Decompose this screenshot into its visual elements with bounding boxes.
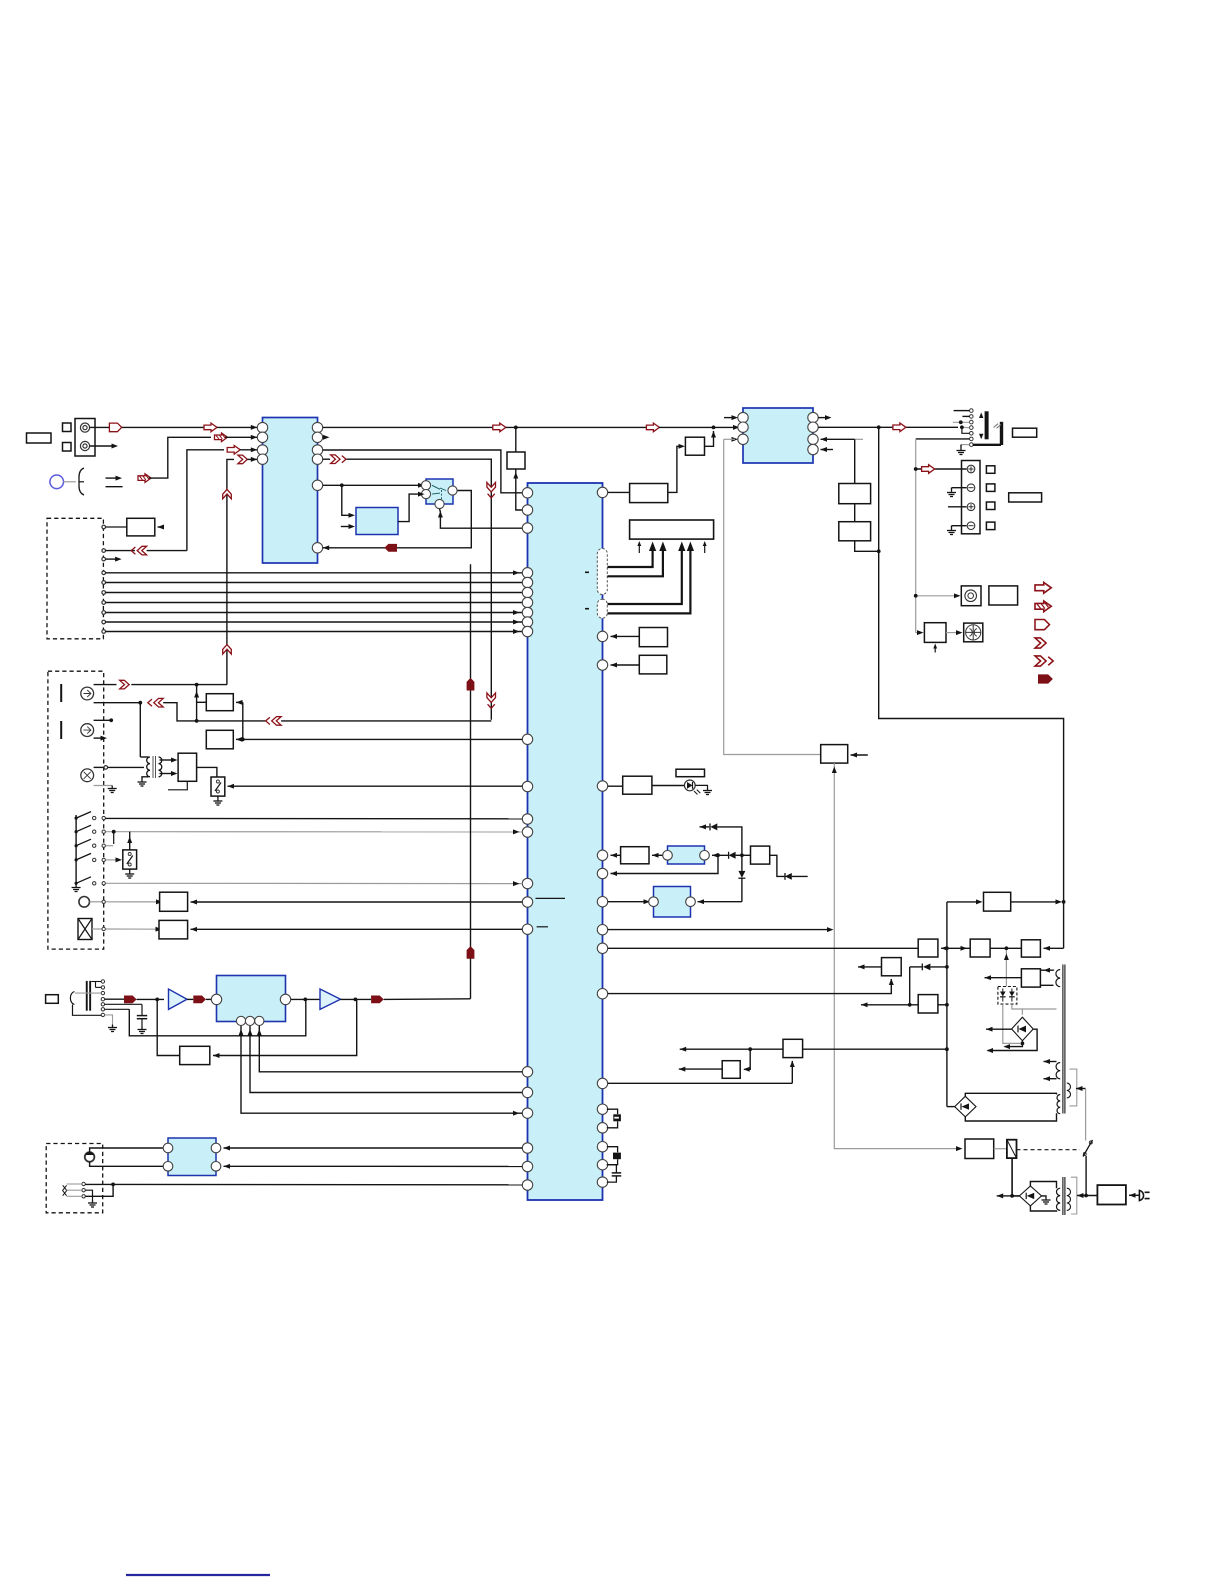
arrow U1.R4 out (331, 455, 346, 464)
tick inside U2 at 927 (537, 926, 548, 928)
stub after Dd4 (792, 875, 808, 877)
riser x140 to T1 (139, 703, 141, 757)
box B6 (630, 484, 668, 503)
wire B20 right (236, 738, 243, 740)
preamp block U8 (217, 976, 286, 1022)
C2 stub bottom (94, 737, 104, 739)
bridge rectifier BR3 (1019, 1186, 1041, 1206)
U2 left pin y622 (522, 617, 532, 627)
jack wire c4 (962, 426, 970, 428)
box B10 (839, 522, 871, 541)
T1 sec bottom lead (160, 773, 175, 775)
solid arrow audio b (193, 996, 206, 1004)
arrow stub B34 left (858, 964, 865, 969)
wire x157 to B44 (157, 999, 180, 1055)
U2 right pin y1182.1 (597, 1177, 607, 1187)
switch box B23 (123, 850, 137, 869)
grey wire down to B30 (724, 439, 821, 754)
wire U8.B2 to U2 1092 (250, 1026, 522, 1093)
T3 primary winding (1057, 1188, 1061, 1210)
U6 pin R (700, 851, 710, 861)
down chevron on x491 riser upper (487, 483, 496, 498)
small box B43 (46, 995, 59, 1004)
left chevrons y720 (266, 717, 281, 726)
wire U9 to U2 1148 (224, 1147, 523, 1149)
buffer amp T1 (169, 989, 188, 1009)
U9 pin L2 (163, 1162, 173, 1172)
label box (27, 433, 52, 443)
terminal square y522.1 (986, 522, 995, 530)
D1 contact bus3 (102, 591, 106, 595)
ground G5 (108, 786, 117, 793)
arrow into U2 636 (611, 634, 618, 639)
box B37 (783, 1039, 803, 1057)
U2 right pin y873.5 (597, 868, 607, 878)
opto zener pair (1000, 992, 1006, 997)
chevron arrow C1 (120, 680, 129, 689)
box B24 (160, 892, 188, 911)
thick bus arrows into B8 (608, 547, 653, 568)
terminal block B13 (962, 461, 981, 534)
U3 right pin y427.2 (808, 422, 818, 432)
wire sw1 to U2 819 (106, 817, 523, 819)
terminal square y465.8 (986, 466, 995, 474)
aux out lead (1076, 1088, 1086, 1090)
box B5 (507, 452, 525, 469)
sec1 top lead (1044, 1061, 1057, 1063)
wire B26 to LED (652, 785, 685, 787)
wire U6.R to Dd2 (712, 854, 728, 856)
U2 right pin y855.3 (597, 850, 607, 860)
box B32 (970, 939, 990, 957)
box B39 (984, 892, 1011, 911)
wire U8.B3 to U2 1071 (259, 1026, 522, 1072)
U2 left pin y832 (522, 827, 532, 837)
arrow into B25 right (191, 927, 198, 932)
xtal box (78, 919, 92, 940)
mic hatched arrow (138, 474, 151, 483)
solid arrow audio c (371, 996, 384, 1004)
aux lead2 (67, 1189, 82, 1191)
fan box B18 (964, 623, 983, 642)
B22 gnd lead (217, 796, 219, 798)
U2 right pin y1109.2 (597, 1104, 607, 1114)
ground G6 (138, 779, 147, 786)
capacitor C1 (141, 1004, 143, 1015)
legend arrow 4 (1035, 638, 1046, 648)
jack wire c3 (953, 421, 970, 423)
tick inside U2 at 608 (585, 608, 589, 610)
AC plug (1139, 1190, 1143, 1200)
wire switch to AC line (1085, 1156, 1087, 1195)
dashed mech link (1017, 1149, 1080, 1151)
D1 contact 550 (102, 549, 106, 553)
wire U2 1083 (608, 1082, 793, 1084)
junction x915 y469 (914, 467, 918, 471)
arrow on speaker line (893, 423, 906, 432)
diode Dd5 (923, 964, 931, 971)
wire BR1 bottom (1005, 1041, 1023, 1047)
wire Dd2 to B29 (736, 854, 751, 856)
wire D1 to B4 (106, 526, 127, 528)
junction (75, 830, 78, 833)
connector J1 pin A outer (80, 423, 89, 432)
wire U1.R1 to U3 segment b (506, 426, 647, 428)
box B45 (639, 628, 667, 647)
terminal circle 3 (967, 503, 975, 511)
mic bracket (79, 468, 84, 495)
block U9 (168, 1138, 216, 1176)
wire U1.R5 to U4.L1 (323, 484, 422, 486)
arrow U9.R1 (224, 1146, 231, 1151)
wire into U8 (206, 998, 211, 1000)
ground G13 (1042, 1197, 1051, 1204)
box B46 (639, 655, 667, 674)
box B35 (918, 995, 938, 1013)
wire to B38 right (744, 1049, 750, 1069)
wire terminal -2 (952, 525, 967, 527)
arrow to terminal (922, 465, 935, 474)
arrow sec1 top (1044, 1059, 1051, 1064)
wire into U1 pin3 (240, 449, 257, 451)
arrow into B44 right (213, 1053, 220, 1058)
solid left arrow on y548 (384, 544, 397, 552)
junction AC (1084, 1194, 1088, 1198)
grey B17 to fan (946, 632, 960, 634)
wire to riser x470 (384, 998, 471, 1001)
U7 pin L (649, 897, 659, 907)
wire B31-B32 (941, 947, 970, 949)
wire B7 up to y427 (705, 431, 714, 446)
wire B45 to U2 (611, 635, 640, 637)
transformer T1 (147, 757, 150, 777)
arrow into U1.4 (238, 455, 247, 464)
resonator X1 (613, 1114, 621, 1121)
wire B24 to U2 902 (191, 901, 523, 903)
dashed box D3 (46, 1144, 102, 1213)
wire aux to U2 1185 (85, 1183, 522, 1185)
wire D1 up to U1.3 route (187, 450, 224, 551)
stub into U3.L1 (724, 417, 735, 419)
feedback loop wire (129, 999, 305, 1035)
junction y427 x515 (514, 426, 518, 430)
connector J1 pin B outer (80, 441, 89, 450)
arrow stub B37 in (680, 1047, 687, 1052)
wire U9 to U2 1166 (224, 1165, 523, 1167)
solid up arrow x470 a (467, 678, 475, 691)
aux connector in D3 (63, 1185, 67, 1195)
box B29 (751, 846, 770, 864)
junction (959, 420, 963, 424)
aux lead1 (67, 1183, 82, 1185)
wire buf2 out (341, 998, 372, 1000)
legend arrow 1 (1035, 582, 1051, 593)
wire D1 550 b (147, 550, 187, 552)
wire x946 to BR2 (947, 1106, 955, 1108)
jack3 step12 (95, 982, 97, 988)
wire B32-B33 (990, 947, 1021, 949)
wire into U1 pin4 (247, 458, 257, 460)
arrow out J1.A (109, 423, 121, 432)
U2 left pin y786.5 (522, 781, 532, 791)
U3 left pin y439.3 (738, 434, 748, 444)
junction x750 y1049 (748, 1047, 752, 1051)
ground G7 (213, 798, 222, 805)
wire to arrow2 (122, 426, 204, 428)
riser x470 mic signal (470, 564, 472, 999)
box B20 (206, 730, 233, 749)
switch in B23 (128, 853, 131, 856)
box B21 (178, 753, 197, 781)
arrow into B20 right (236, 737, 243, 742)
bus wire 1 (106, 572, 523, 574)
U2 left pin y612.5 (522, 607, 532, 617)
jack3 stub3 (75, 992, 101, 994)
box B9 (839, 484, 871, 504)
AC switch (1083, 1153, 1086, 1156)
box B31 (918, 939, 938, 957)
wire U4.R to U1 bottom pin (323, 491, 472, 548)
left chevrons y702 (148, 698, 163, 707)
wire U6 to B28 (652, 854, 663, 856)
relay block U4 (426, 479, 453, 504)
U1 right pin y427.6 (312, 422, 322, 432)
arrow aux out (1076, 1086, 1083, 1091)
down chevron on x491 riser (487, 693, 496, 708)
wire U1.R1 to U3 segment c (659, 426, 736, 428)
fan symbol (966, 625, 981, 640)
U2 left pin y492.8 (522, 488, 532, 498)
D1 contact bus7 (102, 630, 106, 634)
U3 left pin y417.6 (738, 412, 748, 422)
C3 grey stub (94, 785, 113, 787)
wire U2 901 to U7 (608, 901, 649, 903)
junction x196 y720 (195, 719, 199, 723)
T2 secondary winding 1 (1056, 1063, 1060, 1079)
wire U1.R1 to U3 segment a (323, 426, 493, 428)
U3 right pin y449.5 (808, 444, 818, 454)
terminal square y502 (986, 502, 995, 510)
box B12 (1009, 493, 1042, 502)
wire sw4 to B23 (106, 859, 120, 861)
U2 right pin y1146.7 (597, 1142, 607, 1152)
U2 left pin y1071.8 (522, 1067, 532, 1077)
box B40 (965, 1139, 994, 1159)
grey riser x915 (915, 439, 917, 633)
footer blue line (126, 1574, 270, 1576)
jack3 sleeve wire (73, 1005, 102, 1016)
resonator X1 bracket bottom (607, 1122, 618, 1128)
arrow into B22 (228, 784, 235, 789)
wire to T-buf1 (137, 998, 164, 1000)
arrow into U2 665 (611, 663, 618, 668)
box B16 (989, 586, 1018, 605)
U2 left pin y929.2 (522, 924, 532, 934)
junction x718 y855 (716, 853, 720, 857)
U2 right pin y786 (597, 781, 607, 791)
T2 secondary winding 2 (1057, 1095, 1060, 1114)
riser x741 b (741, 878, 743, 902)
terminal square 2 (63, 443, 72, 452)
D1 contact bus5 (102, 611, 106, 615)
U8 pin B1 (236, 1016, 245, 1025)
U1 right pin y459.2 (312, 454, 322, 464)
wire T3 to B42 (1077, 1195, 1097, 1197)
box B27 (676, 769, 705, 777)
aux gnd lead (85, 1190, 92, 1200)
wire into B37 (680, 1048, 783, 1050)
wire sw2 to U2 832 (106, 831, 523, 833)
wire Dd1 to riser x741 (717, 827, 742, 855)
diode Dd3 down (738, 871, 745, 878)
box B4 (127, 518, 155, 536)
indicator circle outer (965, 590, 977, 602)
switch box B22 (211, 777, 225, 796)
wire x341 down to U5 (342, 485, 352, 515)
junction x946 y1049 (945, 1047, 949, 1051)
ground G11 (703, 788, 712, 795)
T2 aux winding right (1067, 1083, 1071, 1098)
U7 pin R (686, 897, 696, 907)
block U7 (654, 887, 691, 918)
box B26 (623, 776, 652, 794)
D1 contact 559 (102, 557, 106, 561)
junction y427 x713 (712, 426, 716, 430)
IC U1 system control (263, 418, 318, 564)
U3.R1 stub (818, 417, 828, 419)
U2 right pin y1164.7 (597, 1160, 607, 1170)
BR3 bottom loop (1030, 1206, 1056, 1211)
junction x341 y485 (340, 483, 344, 487)
wire U7.R to riser (698, 901, 742, 903)
grey wire into U3.L3 (724, 438, 735, 440)
wire BR3 left (997, 1195, 1012, 1197)
U2 right pin y636.4 (597, 631, 607, 641)
junction x946 y1004 (945, 1003, 949, 1007)
RCA jack C1 (81, 687, 94, 700)
riser x196 (196, 685, 198, 721)
box B11 (1013, 428, 1037, 437)
U4 contacts (432, 485, 446, 494)
junction (75, 882, 78, 885)
long wire x878 to PS (879, 427, 1064, 948)
sec1 bottom lead (1044, 1078, 1057, 1080)
jack gnd lead (960, 445, 962, 448)
arrow into U2 873 (611, 871, 618, 876)
ground G10 (108, 1025, 117, 1032)
terminal square 1 (63, 423, 72, 432)
junction x909 y1004 (908, 1003, 912, 1007)
bus wire 4 (106, 602, 523, 604)
wire D1 550 a (106, 550, 135, 552)
junction BR1 bottom (1021, 1042, 1025, 1046)
U1 left pin y437.3 (257, 432, 267, 442)
U2 left pin y883.5 (522, 878, 532, 888)
legend arrow 5 (1035, 656, 1053, 666)
wire sw5 to U2 883 (106, 882, 523, 884)
arrow into U1.1 (204, 423, 217, 432)
wire U1.R4 riser down (347, 459, 492, 720)
diode Dd2 (729, 852, 736, 859)
U2 left pin y592.5 (522, 587, 532, 597)
riser x909 (909, 967, 911, 1005)
wire B5 to U2.2 (516, 469, 523, 510)
junction (75, 844, 78, 847)
wire B37 to x946 (803, 1048, 947, 1050)
U2 left pin y1166.5 (522, 1161, 532, 1171)
U1.R4 tail (323, 458, 330, 460)
wire feedback 873 (611, 855, 719, 873)
B30 right stub (851, 754, 868, 756)
block U6 (668, 846, 705, 864)
switch in B22 (216, 780, 219, 783)
junction x157 (155, 998, 159, 1002)
wire to U2 pin 739 (243, 738, 523, 740)
U3 right pin y439.3 (808, 434, 818, 444)
wire Dd5 a (910, 966, 922, 968)
U8 pin R (280, 994, 290, 1004)
BR3 to gnd (1042, 1196, 1047, 1197)
dashed connector box D2 (48, 671, 104, 949)
U1 right pin y547.8 (312, 543, 322, 553)
T1 bottom lead (142, 777, 149, 779)
wire U2.R1 to B6 (608, 491, 630, 493)
terminal circle 4 (967, 522, 975, 530)
U2 stadium pin 2 (597, 599, 607, 618)
bus wire 2 (106, 582, 523, 584)
ground G3 (947, 528, 956, 535)
riser to B23 top (129, 832, 131, 850)
box B19 (206, 694, 233, 711)
grey riser to AC switch (1085, 1089, 1087, 1141)
wire mic up to U1.2 route (149, 437, 211, 478)
loop top (965, 1093, 1056, 1096)
wire B40 to relay (994, 1148, 1007, 1150)
grey to transformer (1022, 1008, 1056, 1010)
U2 left pin y902 (522, 897, 532, 907)
wire x946 to B39 (947, 901, 980, 903)
switch bank common rail (75, 815, 77, 883)
grey wire to B15 (916, 595, 958, 597)
lamp wire (90, 901, 103, 903)
B36 top lead (1040, 969, 1053, 971)
wire U2 929 to x834 (608, 929, 831, 931)
U4 pin L2 (421, 490, 430, 499)
grey bracket aux (1069, 1069, 1076, 1106)
jack3 stub2 (96, 986, 102, 988)
jack wire c6 (916, 438, 970, 440)
U2 left pin y510 (522, 505, 532, 515)
switch blade 4 (76, 853, 91, 860)
cap C2 bracket top (607, 1147, 618, 1153)
U6 pin L (663, 851, 673, 861)
thin arrow B8 a (638, 544, 640, 554)
D1 contact 527 (102, 525, 106, 529)
U2 left pin y528 (522, 523, 532, 533)
box B17 (924, 623, 946, 643)
junction x946 y948 (945, 946, 949, 950)
terminal circle 1 (967, 465, 975, 473)
ground G8 (125, 871, 134, 878)
junction x305 (303, 998, 307, 1002)
U1 right pin y437.3 (312, 432, 322, 442)
solid arrow audio a (124, 996, 137, 1004)
junction x915 y595 (914, 594, 918, 598)
switch blade 1 (76, 812, 91, 819)
wire junction to B5 top (515, 427, 517, 452)
junction x242 y739 (241, 738, 245, 742)
cap C2 body (613, 1153, 621, 1160)
